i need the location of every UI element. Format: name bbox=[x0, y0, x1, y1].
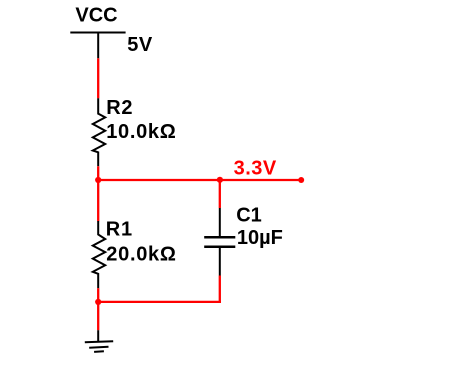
wire node A horizontal to output bbox=[98, 179, 301, 181]
capacitor C1 bbox=[204, 208, 235, 276]
svg-text:R2: R2 bbox=[106, 97, 133, 119]
wire C1 branch down from node bbox=[219, 180, 221, 208]
svg-text:10.0kΩ: 10.0kΩ bbox=[106, 121, 176, 143]
wire R2 bottom to node A bbox=[97, 166, 99, 181]
svg-text:5V: 5V bbox=[127, 34, 153, 56]
svg-text:VCC: VCC bbox=[75, 5, 117, 27]
svg-text:R1: R1 bbox=[106, 218, 133, 240]
wire R1 bottom to ground node bbox=[97, 288, 99, 303]
resistor R2 bbox=[93, 98, 105, 166]
svg-text:20.0kΩ: 20.0kΩ bbox=[106, 243, 176, 265]
wire VCC to R2 top bbox=[97, 58, 99, 98]
svg-text:C1: C1 bbox=[236, 205, 262, 227]
junction node A bbox=[95, 177, 101, 183]
junction node at C1 bbox=[217, 177, 223, 183]
wire C1 bottom down bbox=[219, 276, 221, 304]
wire bottom horizontal bbox=[98, 301, 221, 303]
ground bbox=[85, 330, 113, 352]
svg-text:10µF: 10µF bbox=[237, 227, 283, 249]
resistor R1 bbox=[93, 221, 105, 288]
wire ground node to ground symbol bbox=[97, 302, 99, 330]
junction ground node bbox=[95, 299, 101, 305]
power symbol VCC bbox=[70, 33, 125, 59]
wire end dot bbox=[298, 177, 304, 183]
wire node A to R1 top bbox=[97, 180, 99, 221]
svg-text:3.3V: 3.3V bbox=[234, 157, 277, 179]
